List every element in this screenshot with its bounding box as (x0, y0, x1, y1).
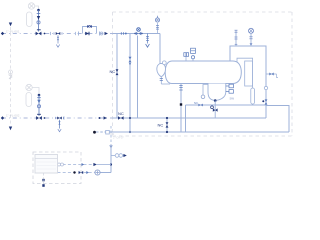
valve: stem handle above bowtie2 x=39 (37, 113, 41, 115)
node: circle after bypass (100, 32, 103, 35)
node: flow arrow into boundary (feed2) (104, 116, 108, 119)
pipe: drum bottom outlet x=181 (180, 84, 182, 133)
boot: sump pocket under drum (208, 84, 226, 101)
skid: dashed package boundary (33, 152, 81, 184)
valve: tick pair on header at x=122 (121, 32, 123, 35)
pipe: header corner down at x=160 (159, 34, 161, 63)
instrument: circle above corner x=157.5 (157, 23, 159, 34)
valve: stub with valve on x=266 at y=74 (266, 73, 277, 75)
pipe: drain stem x=58 (57, 35, 59, 43)
node: arrow down bottom (9, 127, 12, 131)
node: flow arrow into boundary (top line) (105, 32, 109, 35)
pipe: pump discharge drop (38, 10, 40, 32)
valve: hourglass on x=130 (129, 57, 132, 63)
valve: flange tick (37, 12, 41, 14)
node: arrow down top (9, 23, 12, 27)
valve: control valve with round actuator at x=138.5 (137, 28, 141, 32)
pipe: pump suction y=171.5 (100, 172, 111, 174)
battery-limit boundary (dashed rectangle) (113, 12, 293, 136)
svg-text:1"-PL-001: 1"-PL-001 (6, 30, 20, 34)
node: open arrow to atmosphere (56, 45, 59, 48)
node: blue tick at rect edge y=163.5 (82, 163, 85, 166)
pipe: header y=131 (105, 131, 290, 133)
tank: chemical tank (35, 155, 58, 174)
node: dot on header x=125.5 (125, 33, 127, 35)
node: junction dot x=130 on header (129, 117, 131, 119)
node: junction dot y=163.5 (110, 163, 112, 165)
node: circle on x=266 at y=88 (264, 86, 267, 89)
valve: small bowtie on drain stem (57, 37, 59, 40)
valve: stem handle above bowtie x=39 (37, 29, 41, 31)
pipe: boot drain down (214, 101, 216, 118)
pipe: dashed drop to injection skid (110, 126, 112, 145)
node: boot drain dot (214, 99, 217, 102)
pipe: corner to right then down to lower header (266, 106, 289, 133)
pipe: vertical drop x=130 (129, 34, 131, 133)
node: arrowhead on drop (109, 145, 113, 148)
node: flange tick x=64 feed2 (63, 116, 65, 119)
relief valve stack at x=251 (250, 34, 252, 43)
node: flange tick x=50.5 top line (50, 32, 52, 35)
valve: on suction line (73, 171, 75, 173)
pump P2 (mid-left, faint) (26, 84, 39, 93)
node: feed diamond (1, 116, 4, 119)
valve: faint inline symbol on utility line (9, 70, 13, 79)
svg-text:NC: NC (110, 69, 116, 74)
instrument: twin squares on drum top at x=186 (185, 57, 187, 62)
internal rect near right head (245, 61, 253, 86)
node: blue tick at rect edge y=171.5 (86, 171, 89, 174)
valve: NC valve on header after boundary (118, 116, 124, 120)
valve: drain tee cluster at x=58 on top line (56, 32, 61, 35)
node: pump2 discharge dot (38, 94, 41, 97)
svg-text:1"-PL-002: 1"-PL-002 (6, 114, 20, 118)
node: end dot y=131 (93, 131, 96, 134)
node: dot before boundary on feed2 (99, 117, 101, 119)
node: top line start diamond (1, 32, 4, 35)
valve: boot drain cluster (211, 106, 214, 109)
pipe: teardrop drain with flanges (160, 77, 162, 84)
pipe: skid riser solid (110, 148, 112, 173)
pipe: vapor line across top of drum y=45 (230, 46, 266, 118)
vessel: faint capsule column mid-left (26, 93, 32, 107)
pipe: vertical drop x=137.5 from control valve (137, 36, 139, 119)
valve: globe valve on bypass top (87, 25, 92, 28)
pump: injection pump circle (95, 170, 100, 175)
pipe: liquid line y=105 from x=186 (186, 104, 267, 106)
pipe: pump2 discharge drop (38, 95, 40, 116)
valve: NC between headers x=167 (166, 118, 168, 132)
valve: circle symbol on drop (37, 21, 40, 24)
valve: on x=266 above corner (265, 99, 268, 104)
vessel V-1: horizontal drum (165, 61, 241, 84)
pipe: lower header y=118 (113, 117, 266, 119)
instrument: small circle at boot left (203, 85, 208, 96)
pipe: mid-left feed line y=118 (dash-dot) (2, 117, 113, 119)
inlet device: teardrop pot at drum left (159, 62, 161, 64)
node: junction dot right of bowtie (44, 33, 46, 35)
valve: bypass loop around control point (79, 27, 100, 36)
node: pump discharge dot (37, 9, 40, 12)
valve: solid triangle on drop2 (37, 100, 40, 104)
pipe: tank drain dashed (43, 173, 45, 185)
pipe: drain stub at x=147.5 (147, 34, 149, 44)
node: flange tick x=75.5 top line (75, 32, 77, 35)
valve: bowtie on feed line2 at x=39 (36, 116, 42, 120)
valve: drain tee cluster at x=59.5 on feed line2 (57, 117, 62, 120)
instrument: square+circle on drum top at x=193 (192, 59, 194, 61)
node: dark square on x=181 (180, 103, 182, 105)
pipe: branch y=155.5 with sample cocks (111, 155, 124, 157)
pump P1 (top-left, faint) (28, 3, 38, 9)
pipe: dash line y=163.5 from tank (58, 164, 94, 166)
standpipe with capsule (237, 58, 253, 88)
svg-text:NC: NC (158, 123, 164, 128)
valve: on y=105 line at x=200 (198, 104, 202, 107)
valve: NC valve on x=117 (116, 69, 119, 75)
svg-text:NC: NC (194, 101, 198, 105)
instrument: boot gauges right side (226, 84, 234, 93)
pipe: vertical drop x=117 into lower header (116, 34, 118, 119)
valve: solid triangle on drop (37, 16, 40, 20)
svg-text:SW: SW (230, 97, 235, 101)
node: circle at teardrop top right (162, 61, 166, 65)
svg-text:2"-CH-07: 2"-CH-07 (113, 136, 124, 140)
valve: circle symbol on drop2 (37, 105, 40, 108)
valve: bowtie on top feed line at x=39 (36, 32, 42, 36)
vent stack with flanges at x=236 (235, 30, 237, 46)
pipe: vertical utility line at x=10.5 (10, 27, 12, 126)
vessel: faint capsule column top-left (27, 12, 33, 27)
node: junction dots at control valve (134, 33, 135, 34)
pipe: top feed line (dash-dot) (2, 33, 160, 35)
svg-text:NC: NC (118, 111, 124, 116)
node: square symbol on y=131 (106, 130, 110, 134)
valve: check valve on main run (85, 32, 89, 36)
node: open arrow down at x=147.5 (146, 44, 150, 47)
